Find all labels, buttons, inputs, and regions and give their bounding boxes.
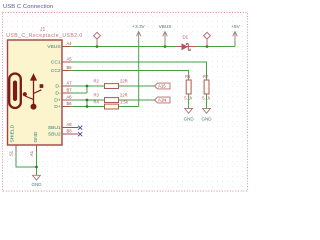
svg-text:B8: B8 xyxy=(67,129,73,134)
svg-text:GND: GND xyxy=(184,117,195,122)
wire D- A7 row xyxy=(70,85,155,87)
svg-text:R7: R7 xyxy=(203,74,209,79)
svg-text:A1N: A1N xyxy=(158,98,166,103)
svg-text:A1: A1 xyxy=(29,150,34,156)
svg-text:D-: D- xyxy=(55,91,61,97)
ground under R7 xyxy=(203,108,211,113)
svg-text:R3: R3 xyxy=(94,93,100,98)
wire A1 to ground xyxy=(36,151,38,175)
svg-text:SBU2: SBU2 xyxy=(48,132,61,138)
wire R4 to +3.3V rail xyxy=(119,40,139,107)
pin B5 CC2 xyxy=(62,70,70,72)
svg-text:SHIELD: SHIELD xyxy=(10,124,16,142)
wire R6 to GND xyxy=(188,94,190,108)
svg-text:R6: R6 xyxy=(185,74,191,79)
svg-text:USB_C_Receptacle_USB2.0: USB_C_Receptacle_USB2.0 xyxy=(6,33,82,39)
diode D1 xyxy=(176,35,196,51)
wire CC2 to R6 xyxy=(70,71,189,81)
svg-text:VBUS: VBUS xyxy=(159,24,172,29)
junction VBUS power symbol xyxy=(164,45,167,48)
wire D+ B6 row to R4 xyxy=(70,100,105,107)
svg-text:1.5k: 1.5k xyxy=(120,99,129,104)
ground under R6 xyxy=(185,108,193,113)
svg-text:A4: A4 xyxy=(67,41,73,46)
pin A8 SBU1 xyxy=(62,127,79,129)
junction D+ B6 xyxy=(86,105,89,108)
pin A1 GND xyxy=(36,145,38,152)
svg-text:SBU1: SBU1 xyxy=(48,125,61,131)
power flag PWR_FLAG on VBUS xyxy=(94,32,101,46)
wire D+ A6 row xyxy=(70,99,155,101)
svg-text:VBUS: VBUS xyxy=(47,44,61,50)
wire shield to ground xyxy=(16,151,37,167)
svg-text:A15: A15 xyxy=(158,84,166,89)
svg-text:CC2: CC2 xyxy=(51,68,61,74)
power symbol +5V xyxy=(231,24,240,41)
svg-text:A5: A5 xyxy=(67,57,73,62)
global label A15 (D- net) xyxy=(155,83,171,89)
svg-text:A8: A8 xyxy=(67,122,73,127)
svg-text:D+: D+ xyxy=(54,98,61,104)
svg-text:R4: R4 xyxy=(94,99,100,104)
sheet dotted border xyxy=(3,13,248,192)
svg-text:GND: GND xyxy=(202,117,213,122)
pin B8 SBU2 xyxy=(62,133,79,135)
power symbol +3.3V xyxy=(132,24,145,40)
junction VBUS / PWR_FLAG xyxy=(96,45,99,48)
wire D- B7 join xyxy=(70,86,87,93)
power symbol VBUS xyxy=(159,24,172,47)
svg-text:GND: GND xyxy=(32,182,43,187)
junction ground node xyxy=(35,166,38,169)
svg-text:D1: D1 xyxy=(183,35,189,40)
pin A7 D- xyxy=(62,85,70,87)
pin A5 CC1 xyxy=(62,61,70,63)
pin A6 D+ xyxy=(62,99,70,101)
junction D+ A6 xyxy=(86,99,89,102)
wire CC1 to R7 xyxy=(70,62,207,80)
svg-text:22R: 22R xyxy=(120,93,128,98)
wire R7 to GND xyxy=(206,94,208,108)
svg-text:22R: 22R xyxy=(120,79,128,84)
resistor R7 xyxy=(204,80,209,94)
resistor R4 xyxy=(105,104,119,109)
pin B7 D- xyxy=(62,92,70,94)
pin S1 SHIELD xyxy=(15,145,17,152)
svg-text:B6: B6 xyxy=(67,101,73,106)
junction +5V side flag xyxy=(206,45,209,48)
svg-text:D+: D+ xyxy=(54,104,61,110)
pin B6 D+ xyxy=(62,106,70,108)
resistor R3 xyxy=(105,98,119,103)
pin A4 VBUS xyxy=(62,46,70,48)
connector J1 body xyxy=(8,40,63,145)
global label A1N (D+ net) xyxy=(155,97,171,103)
svg-text:CC1: CC1 xyxy=(51,60,61,66)
power flag PWR_FLAG on +5V xyxy=(204,32,211,46)
svg-text:B5: B5 xyxy=(67,65,73,70)
svg-text:D-: D- xyxy=(55,84,61,90)
resistor R2 xyxy=(105,84,119,89)
svg-text:GND: GND xyxy=(33,131,39,142)
svg-text:USB C Connection: USB C Connection xyxy=(3,4,53,10)
svg-text:A7: A7 xyxy=(67,81,73,86)
resistor R6 xyxy=(186,80,191,94)
no-connect flag on SBU2 xyxy=(78,132,82,136)
ground under connector xyxy=(33,175,41,180)
svg-text:+3.3V: +3.3V xyxy=(132,24,145,29)
junction D- A7/B7 xyxy=(86,85,89,88)
svg-text:R2: R2 xyxy=(94,79,100,84)
svg-text:+5V: +5V xyxy=(231,24,240,29)
USB icon xyxy=(9,73,43,109)
no-connect flag on SBU1 xyxy=(78,126,82,130)
svg-text:S1: S1 xyxy=(8,150,13,156)
svg-text:B7: B7 xyxy=(67,88,73,93)
wire VBUS horizontal xyxy=(70,41,235,47)
svg-text:A6: A6 xyxy=(67,95,73,100)
